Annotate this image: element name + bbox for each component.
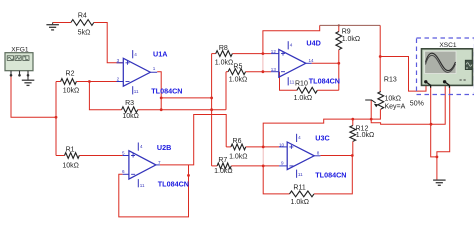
svg-text:6: 6 [122, 169, 125, 174]
svg-text:1.0kΩ: 1.0kΩ [291, 199, 309, 206]
svg-text:10kΩ: 10kΩ [62, 163, 79, 170]
svg-text:1: 1 [153, 66, 156, 71]
svg-text:2: 2 [117, 76, 120, 81]
svg-text:9: 9 [281, 161, 284, 166]
svg-text:R9: R9 [342, 29, 351, 36]
svg-text:R4: R4 [78, 13, 87, 20]
svg-text:R11: R11 [293, 184, 305, 191]
svg-text:12: 12 [271, 49, 277, 54]
svg-text:XFG1: XFG1 [11, 47, 29, 54]
svg-text:11: 11 [298, 172, 303, 177]
svg-text:7: 7 [158, 160, 161, 165]
svg-text:R13: R13 [384, 77, 397, 84]
svg-text:11: 11 [134, 89, 139, 94]
svg-text:10: 10 [279, 142, 285, 147]
svg-text:U3C: U3C [315, 133, 329, 142]
svg-text:5: 5 [122, 150, 125, 155]
svg-text:1.0kΩ: 1.0kΩ [214, 168, 232, 175]
svg-text:R2: R2 [66, 71, 75, 78]
svg-text:TL084CN: TL084CN [315, 171, 346, 180]
svg-text:XSC1: XSC1 [439, 42, 457, 49]
svg-text:13: 13 [271, 67, 277, 72]
svg-text:1.0kΩ: 1.0kΩ [342, 36, 360, 43]
svg-text:5kΩ: 5kΩ [78, 30, 91, 37]
svg-text:TL084CN: TL084CN [309, 76, 340, 85]
svg-text:1.0kΩ: 1.0kΩ [215, 60, 233, 67]
svg-text:10kΩ: 10kΩ [385, 95, 402, 102]
svg-text:4: 4 [140, 144, 143, 149]
svg-text:R8: R8 [219, 45, 228, 52]
svg-text:U1A: U1A [153, 49, 167, 58]
svg-text:TL084CN: TL084CN [151, 87, 182, 96]
svg-text:R7: R7 [218, 157, 227, 164]
svg-text:4: 4 [134, 52, 137, 57]
svg-text:R10: R10 [295, 80, 308, 87]
svg-text:R5: R5 [233, 63, 242, 70]
svg-text:1.0kΩ: 1.0kΩ [229, 76, 247, 83]
svg-text:R6: R6 [233, 138, 242, 145]
svg-text:4: 4 [290, 42, 293, 47]
svg-text:10kΩ: 10kΩ [63, 87, 80, 94]
svg-text:U4D: U4D [306, 39, 320, 48]
svg-text:11: 11 [290, 80, 295, 85]
svg-text:1.0kΩ: 1.0kΩ [294, 95, 312, 102]
svg-text:50%: 50% [410, 101, 424, 108]
svg-text:R3: R3 [125, 100, 134, 107]
svg-text:11: 11 [140, 183, 145, 188]
svg-text:1.0kΩ: 1.0kΩ [356, 132, 374, 139]
svg-text:10kΩ: 10kΩ [122, 113, 139, 120]
svg-text:4: 4 [298, 135, 301, 140]
svg-text:R1: R1 [66, 147, 75, 154]
svg-text:8: 8 [317, 151, 320, 156]
svg-text:14: 14 [309, 58, 315, 63]
svg-text:U2B: U2B [157, 143, 171, 152]
svg-text:Key=A: Key=A [385, 104, 406, 111]
svg-text:1.0kΩ: 1.0kΩ [229, 153, 247, 160]
svg-text:3: 3 [117, 58, 120, 63]
svg-text:TL084CN: TL084CN [158, 180, 189, 189]
